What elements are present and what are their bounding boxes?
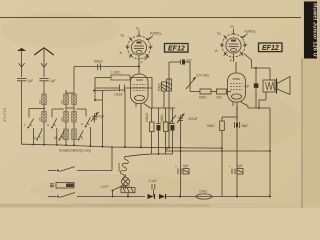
svg-text:URDOX: URDOX xyxy=(117,162,121,172)
svg-text:2µF: 2µF xyxy=(50,79,56,83)
svg-text:2µF: 2µF xyxy=(28,79,34,83)
svg-text:Ruwel Junior 126 U: Ruwel Junior 126 U xyxy=(311,3,317,56)
svg-text:5nF: 5nF xyxy=(244,85,250,89)
svg-text:500µF: 500µF xyxy=(94,60,103,64)
svg-text:K: K xyxy=(81,136,84,140)
svg-text:600Ω: 600Ω xyxy=(158,83,162,91)
svg-text:Schalterstellung Lang: Schalterstellung Lang xyxy=(59,149,91,153)
svg-text:+: + xyxy=(229,165,231,169)
svg-text:471 F19: 471 F19 xyxy=(3,108,7,122)
svg-text:+: + xyxy=(175,165,177,169)
svg-text:8µF: 8µF xyxy=(237,164,243,168)
svg-text:0,5-1MΩ: 0,5-1MΩ xyxy=(197,74,210,78)
svg-text:1,2MΩ: 1,2MΩ xyxy=(111,71,121,75)
svg-text:100kΩ: 100kΩ xyxy=(145,112,149,122)
svg-text:M: M xyxy=(33,136,36,140)
svg-text:A: A xyxy=(120,51,123,55)
svg-text:F: F xyxy=(230,59,233,63)
svg-text:A: A xyxy=(215,49,218,53)
svg-text:EF12: EF12 xyxy=(168,46,185,53)
svg-text:M: M xyxy=(54,136,57,140)
svg-text:EF12: EF12 xyxy=(262,45,279,52)
svg-text:100µF: 100µF xyxy=(114,93,123,97)
svg-text:5µF: 5µF xyxy=(183,164,189,168)
svg-text:F: F xyxy=(141,61,144,65)
